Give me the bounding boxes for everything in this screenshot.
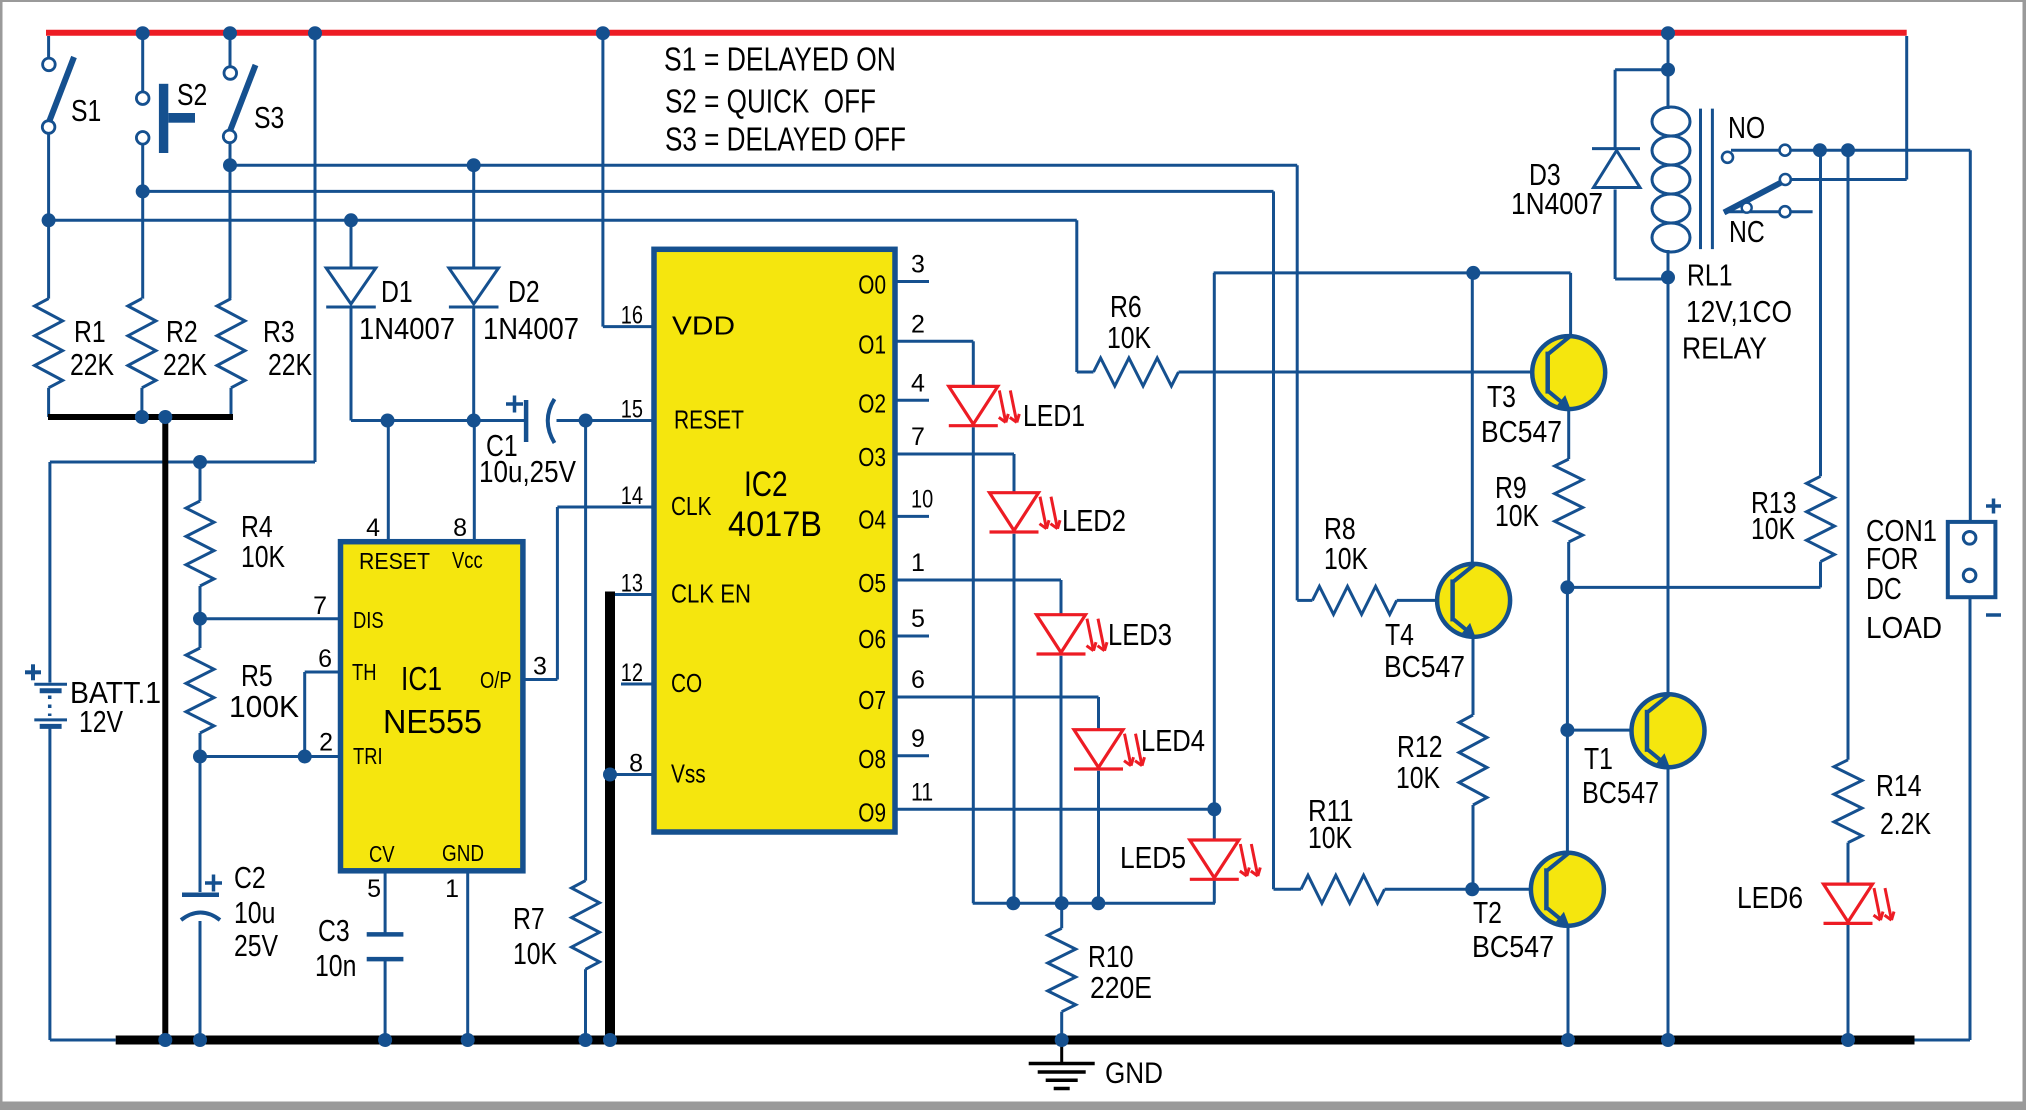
svg-text:Vss: Vss [671, 759, 706, 789]
svg-text:12: 12 [621, 659, 643, 687]
svg-text:10K: 10K [1107, 320, 1151, 355]
svg-text:6: 6 [911, 666, 925, 694]
svg-text:9: 9 [911, 725, 925, 753]
svg-text:R1: R1 [74, 314, 106, 349]
svg-text:T2: T2 [1473, 895, 1502, 930]
svg-text:10K: 10K [513, 936, 557, 971]
svg-text:10K: 10K [1324, 541, 1368, 576]
svg-text:C2: C2 [234, 860, 266, 895]
svg-text:R7: R7 [513, 901, 545, 936]
svg-text:BC547: BC547 [1481, 414, 1562, 449]
svg-text:11: 11 [911, 778, 933, 806]
svg-text:T3: T3 [1487, 379, 1516, 414]
svg-text:R5: R5 [241, 658, 273, 693]
svg-text:S3 = DELAYED OFF: S3 = DELAYED OFF [665, 121, 906, 158]
svg-text:1: 1 [445, 875, 459, 903]
svg-text:CO: CO [671, 668, 702, 698]
svg-text:S2: S2 [177, 77, 207, 112]
svg-text:CV: CV [369, 841, 395, 867]
svg-text:DC: DC [1866, 571, 1902, 606]
svg-text:TRI: TRI [353, 743, 383, 769]
svg-text:2: 2 [319, 729, 333, 757]
svg-text:25V: 25V [234, 928, 278, 963]
svg-text:GND: GND [442, 840, 484, 866]
svg-text:2: 2 [911, 310, 925, 338]
svg-text:LED2: LED2 [1062, 503, 1126, 538]
svg-text:O8: O8 [858, 744, 886, 774]
svg-text:NC: NC [1729, 214, 1765, 249]
svg-text:O1: O1 [858, 329, 886, 359]
svg-text:O5: O5 [858, 568, 886, 598]
svg-text:4017B: 4017B [728, 505, 822, 544]
svg-text:6: 6 [318, 645, 332, 673]
svg-text:7: 7 [911, 423, 925, 451]
svg-text:10K: 10K [1495, 498, 1539, 533]
svg-text:NO: NO [1728, 110, 1765, 145]
svg-text:O6: O6 [858, 624, 886, 654]
svg-text:5: 5 [911, 605, 925, 633]
svg-text:2.2K: 2.2K [1880, 806, 1931, 841]
svg-text:LOAD: LOAD [1866, 610, 1942, 645]
svg-text:NE555: NE555 [383, 703, 482, 740]
svg-text:BC547: BC547 [1582, 775, 1659, 810]
svg-text:5: 5 [367, 875, 381, 903]
svg-text:10: 10 [911, 485, 933, 513]
svg-text:22K: 22K [268, 347, 312, 382]
svg-text:10K: 10K [1308, 820, 1352, 855]
svg-text:TH: TH [352, 659, 377, 685]
svg-text:1N4007: 1N4007 [483, 311, 579, 346]
svg-text:RELAY: RELAY [1682, 331, 1767, 366]
svg-text:16: 16 [621, 302, 643, 330]
svg-text:14: 14 [621, 482, 643, 510]
svg-text:VDD: VDD [672, 311, 735, 341]
svg-text:IC2: IC2 [744, 465, 788, 504]
svg-text:S2 = QUICK OFF: S2 = QUICK OFF [665, 83, 876, 120]
svg-text:3: 3 [533, 653, 547, 681]
svg-text:8: 8 [629, 750, 643, 778]
svg-text:T1: T1 [1584, 741, 1613, 776]
svg-text:DIS: DIS [353, 607, 384, 633]
svg-text:LED4: LED4 [1141, 723, 1205, 758]
svg-text:10K: 10K [1751, 511, 1795, 546]
svg-text:100K: 100K [229, 689, 299, 724]
svg-text:LED1: LED1 [1023, 398, 1085, 433]
svg-text:BC547: BC547 [1472, 929, 1554, 964]
svg-text:C3: C3 [318, 913, 350, 948]
svg-text:22K: 22K [70, 347, 114, 382]
svg-text:Vcc: Vcc [452, 547, 483, 573]
svg-text:O2: O2 [858, 388, 886, 418]
svg-text:GND: GND [1105, 1057, 1163, 1090]
svg-text:LED6: LED6 [1737, 880, 1803, 915]
svg-text:1: 1 [911, 549, 925, 577]
svg-text:O7: O7 [858, 685, 886, 715]
svg-text:O3: O3 [858, 442, 886, 472]
svg-text:LED3: LED3 [1108, 617, 1172, 652]
svg-text:S3: S3 [254, 100, 284, 135]
svg-text:CLK: CLK [671, 491, 712, 521]
svg-text:O/P: O/P [480, 667, 512, 693]
svg-text:R14: R14 [1876, 768, 1922, 803]
svg-text:12V: 12V [79, 704, 123, 739]
svg-text:22K: 22K [163, 347, 207, 382]
svg-text:10u: 10u [234, 895, 275, 930]
svg-text:RESET: RESET [359, 548, 430, 574]
svg-text:7: 7 [313, 592, 327, 620]
svg-text:10K: 10K [1396, 760, 1440, 795]
svg-text:12V,1CO: 12V,1CO [1686, 294, 1792, 329]
svg-text:RESET: RESET [674, 405, 744, 435]
svg-text:IC1: IC1 [401, 660, 442, 697]
svg-text:1N4007: 1N4007 [359, 311, 455, 346]
svg-text:1N4007: 1N4007 [1511, 186, 1603, 221]
svg-text:R3: R3 [263, 314, 295, 349]
svg-text:220E: 220E [1090, 970, 1152, 1005]
svg-text:O4: O4 [858, 504, 886, 534]
svg-text:T4: T4 [1385, 617, 1414, 652]
svg-text:RL1: RL1 [1687, 258, 1733, 293]
svg-text:3: 3 [911, 251, 925, 279]
svg-text:D2: D2 [508, 274, 540, 309]
svg-text:10n: 10n [315, 948, 356, 983]
svg-text:S1 = DELAYED ON: S1 = DELAYED ON [664, 41, 896, 78]
svg-text:R10: R10 [1088, 939, 1134, 974]
svg-text:10K: 10K [241, 539, 285, 574]
svg-text:10u,25V: 10u,25V [479, 454, 576, 489]
svg-text:BC547: BC547 [1384, 649, 1465, 684]
svg-text:O9: O9 [858, 797, 886, 827]
svg-text:R6: R6 [1110, 289, 1142, 324]
svg-text:8: 8 [453, 514, 467, 542]
svg-text:S1: S1 [71, 93, 101, 128]
svg-text:LED5: LED5 [1120, 840, 1186, 875]
svg-text:CLK EN: CLK EN [671, 579, 751, 609]
svg-text:O0: O0 [858, 270, 886, 300]
svg-text:D1: D1 [381, 274, 413, 309]
svg-text:4: 4 [911, 369, 925, 397]
svg-text:4: 4 [366, 514, 380, 542]
svg-text:R12: R12 [1397, 729, 1443, 764]
svg-text:R2: R2 [166, 314, 198, 349]
svg-text:15: 15 [621, 396, 643, 424]
svg-text:13: 13 [621, 570, 643, 598]
